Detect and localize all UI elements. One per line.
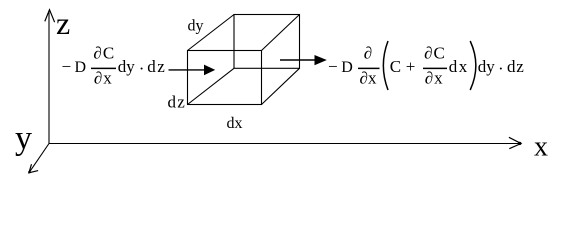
z-axis arrowhead: [45, 10, 55, 23]
svg-text:y: y: [15, 120, 32, 157]
y-axis arrowhead: [29, 164, 38, 173]
svg-text:−: −: [62, 57, 72, 76]
y-axis arrowhead dot: [28, 171, 31, 174]
right formula closing parenthesis: [470, 41, 476, 90]
svg-text:dz: dz: [507, 57, 525, 76]
svg-text:z: z: [56, 5, 70, 41]
svg-text:dy: dy: [478, 57, 496, 76]
cube edge top-right: [262, 15, 300, 51]
y-axis shaft: [29, 144, 49, 173]
x-axis arrowhead dot: [518, 142, 521, 145]
svg-text:C: C: [390, 57, 401, 76]
svg-text:∂C: ∂C: [93, 44, 115, 63]
x-axis shaft: [49, 143, 520, 145]
svg-text:D: D: [75, 59, 87, 76]
svg-text:dx: dx: [449, 57, 469, 76]
svg-text:−: −: [328, 57, 338, 76]
svg-text:dy: dy: [188, 18, 204, 35]
x-axis arrowhead: [509, 137, 521, 148]
svg-text:dz: dz: [168, 93, 186, 112]
right formula first fraction bar: [358, 67, 380, 69]
svg-text:∂C: ∂C: [424, 44, 446, 63]
cube front face: [188, 51, 262, 105]
cube edge top-left: [188, 15, 235, 51]
left formula fraction bar: [91, 67, 116, 69]
z-axis shaft: [48, 11, 50, 144]
cube edge bottom-right: [262, 68, 300, 104]
outflow arrowhead: [315, 55, 327, 65]
svg-text:dx: dx: [227, 115, 243, 132]
svg-text:·: ·: [498, 59, 504, 78]
right formula second fraction bar: [423, 67, 447, 69]
svg-text:D: D: [341, 59, 353, 76]
cube edge bottom-left: [188, 68, 235, 104]
svg-text:∂x: ∂x: [425, 69, 444, 88]
right formula opening parenthesis: [383, 41, 388, 90]
inflow arrow shaft: [169, 69, 207, 71]
outflow arrow shaft: [280, 59, 316, 61]
svg-text:dy: dy: [118, 57, 136, 76]
svg-text:∂x: ∂x: [360, 69, 377, 88]
svg-text:dz: dz: [147, 57, 166, 76]
cube back face: [234, 15, 300, 69]
svg-text:+: +: [406, 57, 416, 76]
svg-text:∂: ∂: [364, 44, 372, 63]
svg-text:x: x: [534, 132, 548, 163]
svg-text:·: ·: [139, 59, 145, 78]
inflow arrowhead: [204, 65, 215, 76]
svg-text:∂x: ∂x: [94, 69, 113, 88]
